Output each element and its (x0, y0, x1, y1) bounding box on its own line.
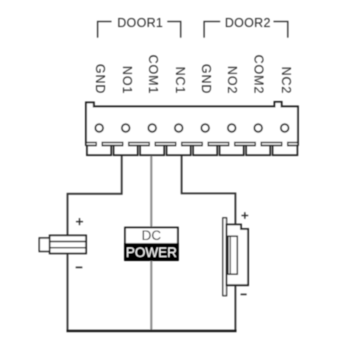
screw pin 1 (95, 124, 103, 132)
polarity minus (left lock) (76, 266, 83, 268)
screw pin 7 (254, 124, 262, 132)
strike keeper recess (228, 236, 237, 274)
wire NO1 to left lock positive (68, 156, 122, 331)
svg-text:DOOR2: DOOR2 (225, 16, 271, 30)
screw pin 3 (148, 124, 156, 132)
svg-text:DOOR1: DOOR1 (117, 16, 163, 30)
svg-text:POWER: POWER (126, 245, 177, 260)
polarity plus (left lock) (76, 218, 83, 225)
strike body (227, 225, 249, 286)
screw pin 2 (122, 124, 130, 132)
terminal block connector body (86, 102, 298, 146)
svg-text:NC2: NC2 (279, 67, 293, 95)
bolt body ridge lines (50, 242, 86, 248)
svg-text:GND: GND (93, 64, 107, 94)
plug contact fringe bars (86, 143, 298, 146)
svg-text:GND: GND (199, 64, 213, 94)
keeper inner line (229, 236, 231, 274)
svg-text:NO1: NO1 (120, 66, 134, 94)
wire NC1 to right lock positive (182, 156, 236, 331)
electric bolt lock (door1) (39, 218, 86, 267)
bolt body (50, 235, 86, 253)
strike faceplate (223, 218, 227, 296)
wire COM1 to DC power (150, 156, 152, 331)
svg-text:COM2: COM2 (252, 55, 266, 95)
bottom rail wire (67, 330, 237, 332)
bolt plunger (39, 238, 49, 251)
svg-text:DC: DC (142, 228, 162, 243)
power box black half (124, 243, 179, 260)
polarity minus (right lock) (241, 293, 247, 295)
svg-text:COM1: COM1 (146, 55, 160, 95)
screw pin 6 (228, 124, 236, 132)
screw pin 8 (281, 124, 289, 132)
svg-text:NO2: NO2 (225, 66, 239, 94)
bracket DOOR1 (98, 22, 181, 38)
power box outline (125, 228, 178, 261)
svg-text:NC1: NC1 (173, 67, 187, 95)
plug pole boxes (87, 145, 298, 155)
DC power supply (124, 228, 179, 261)
screw pin 5 (201, 124, 209, 132)
screw pin 4 (175, 124, 183, 132)
polarity plus (right lock) (242, 212, 249, 219)
bracket DOOR2 (204, 22, 288, 38)
electric strike lock (door2) (223, 212, 248, 295)
